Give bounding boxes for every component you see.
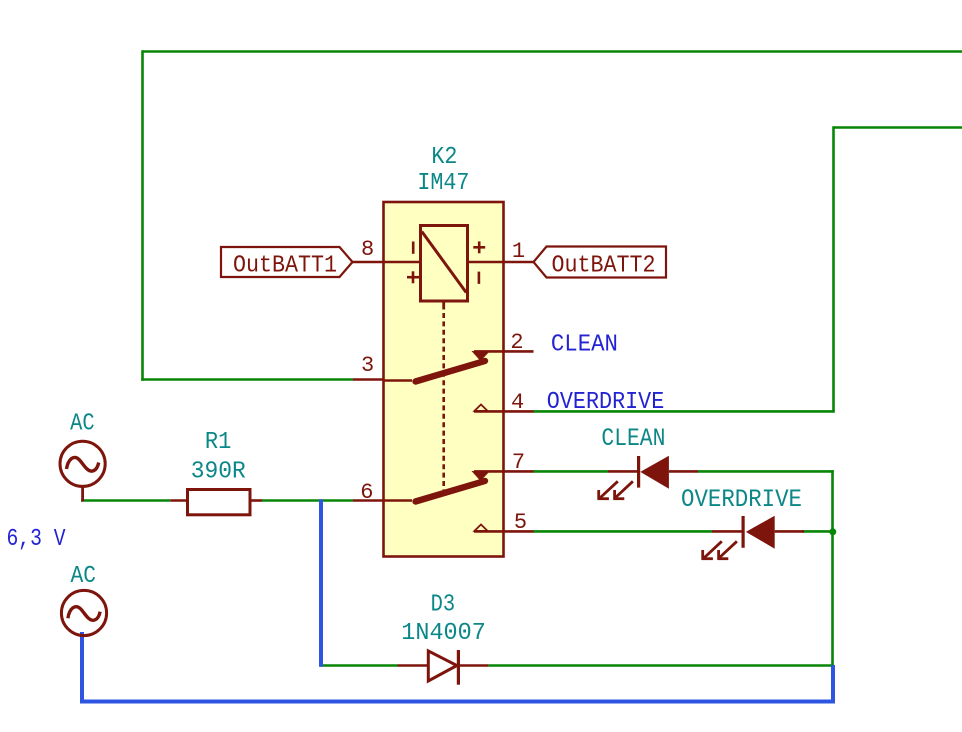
- wire D3 left horizontal: [320, 664, 398, 667]
- bus blue vertical from R1 node: [319, 499, 323, 667]
- relay coil rectangle: [421, 226, 468, 302]
- pin 3 inner lead: [384, 379, 413, 382]
- svg-text:4: 4: [511, 390, 524, 415]
- svg-text:K2: K2: [431, 144, 457, 171]
- pin 4 contact triangle: [475, 405, 488, 411]
- wire pin 5 to LED OVERDRIVE: [533, 530, 712, 533]
- coil bottom stub: [442, 301, 445, 310]
- svg-text:D3: D3: [431, 592, 456, 619]
- svg-text:7: 7: [512, 450, 525, 475]
- svg-text:CLEAN: CLEAN: [551, 332, 618, 359]
- resistor R1 left lead: [170, 499, 187, 502]
- svg-text:390R: 390R: [191, 459, 246, 486]
- LED CLEAN cathode bar: [637, 456, 640, 488]
- wire AC1 to R1: [81, 499, 170, 502]
- wire pin 7 to LED CLEAN: [533, 470, 608, 473]
- svg-text:6,3 V: 6,3 V: [7, 526, 66, 553]
- svg-text:3: 3: [361, 353, 374, 378]
- LED CLEAN emission arrow 2: [614, 481, 633, 500]
- LED OVERDRIVE right lead: [775, 530, 804, 533]
- LED OVERDRIVE left lead: [712, 530, 743, 533]
- relay coil diagonal: [422, 232, 466, 293]
- wire right entry horizontal: [834, 126, 962, 129]
- svg-text:IM47: IM47: [417, 170, 469, 197]
- LED OVERDRIVE cathode bar: [741, 516, 744, 548]
- coil polarity mark right I: [478, 272, 481, 284]
- AC source 1 sine: [67, 457, 99, 471]
- pin 4 lead: [474, 410, 534, 413]
- pin 1 lead: [468, 261, 534, 264]
- bus blue AC2 vertical: [80, 632, 84, 704]
- AC source 2 sine: [68, 607, 100, 621]
- LED CLEAN left lead: [608, 470, 639, 473]
- pin 6 inner lead: [384, 499, 413, 502]
- AC source 1 circle: [60, 441, 105, 486]
- wire LED OVERDRIVE to right rail: [802, 530, 833, 533]
- LED CLEAN right lead: [669, 470, 698, 473]
- diode D3 right lead: [458, 664, 488, 667]
- svg-text:6: 6: [360, 480, 373, 505]
- svg-text:OutBATT2: OutBATT2: [552, 253, 656, 280]
- wire LED CLEAN to right rail: [698, 470, 834, 473]
- diode D3 cathode bar: [457, 650, 460, 685]
- wire right rail vertical: [831, 470, 834, 665]
- resistor R1 body: [188, 490, 251, 515]
- LED OVERDRIVE emission arrow 2: [718, 541, 737, 560]
- diode D3 triangle: [428, 651, 457, 681]
- switch contact A arrowhead: [472, 351, 491, 361]
- LED CLEAN emission arrow 1: [598, 481, 618, 500]
- svg-text:CLEAN: CLEAN: [601, 424, 665, 453]
- LED CLEAN triangle: [640, 456, 669, 489]
- svg-text:1N4007: 1N4007: [401, 620, 486, 647]
- pin 6 lead: [353, 499, 384, 502]
- svg-text:AC: AC: [71, 563, 97, 590]
- svg-text:2: 2: [510, 330, 523, 355]
- svg-text:5: 5: [514, 510, 527, 535]
- svg-text:1: 1: [512, 239, 525, 264]
- coil polarity mark left I: [412, 242, 415, 254]
- wire to pin 3: [141, 378, 353, 381]
- coil polarity mark left plus: [407, 271, 419, 283]
- pin 5 contact triangle: [475, 525, 488, 531]
- pin 3 lead: [353, 378, 384, 381]
- relay K2 body: [384, 202, 504, 557]
- svg-text:8: 8: [361, 237, 374, 262]
- pin 2 lead: [474, 350, 534, 353]
- dashed mechanical link: [442, 313, 445, 490]
- pin 5 lead: [474, 530, 534, 533]
- LED OVERDRIVE emission arrow 1: [702, 541, 722, 560]
- resistor R1 right lead: [250, 499, 262, 502]
- switch contact A arm (pin 3 to 2): [416, 361, 486, 382]
- AC source 1 stub: [81, 486, 84, 501]
- pin 8 lead: [353, 261, 421, 264]
- switch contact B arrowhead: [472, 471, 491, 481]
- wire top horizontal (net OutBATT1 loop): [143, 50, 962, 53]
- svg-text:AC: AC: [70, 411, 95, 438]
- pin 7 lead: [474, 470, 534, 473]
- bus blue bottom horizontal: [80, 700, 835, 704]
- diode D3 left lead: [398, 664, 429, 667]
- svg-text:OVERDRIVE: OVERDRIVE: [681, 485, 802, 514]
- hierarchical label OutBATT1 shape: [221, 247, 353, 277]
- LED OVERDRIVE triangle: [746, 516, 775, 549]
- svg-text:OutBATT1: OutBATT1: [233, 253, 337, 280]
- hierarchical label OutBATT2 shape: [534, 247, 667, 278]
- junction on right rail: [829, 528, 836, 535]
- AC source 2 circle: [61, 590, 106, 635]
- switch contact B arm (pin 6 to 7): [416, 481, 486, 502]
- wire R1 to pin 6: [262, 499, 353, 502]
- svg-text:R1: R1: [205, 429, 232, 456]
- wire left vertical: [141, 50, 144, 381]
- wire pin 4 horizontal (net OVERDRIVE): [533, 410, 835, 413]
- wire right vertical to pin 4 level: [832, 126, 835, 411]
- bus blue right vertical: [831, 665, 835, 704]
- wire D3 right horizontal: [488, 664, 833, 667]
- coil polarity mark right plus: [473, 241, 485, 253]
- svg-text:OVERDRIVE: OVERDRIVE: [547, 389, 665, 416]
